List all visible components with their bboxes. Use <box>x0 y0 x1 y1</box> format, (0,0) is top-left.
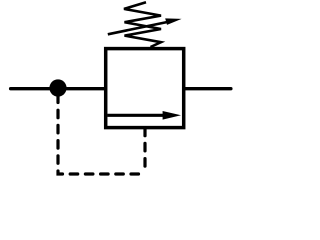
pilot line (dashed): riser up to valve bottom <box>143 128 146 168</box>
adjustment arrowhead <box>165 18 181 25</box>
valve body (regulator envelope) <box>106 49 184 128</box>
wire: main pipe right segment <box>184 87 231 90</box>
adjustment arrow shaft through spring <box>108 22 168 34</box>
pilot line (dashed): down from junction dot then right along bottom <box>58 95 139 174</box>
flow-path arrow inside valve body (shaft) <box>108 114 167 117</box>
flow-path arrowhead <box>163 111 181 120</box>
node: junction dot <box>49 79 66 96</box>
wire: main pipe left segment <box>11 87 105 90</box>
spring (zigzag) on valve top <box>124 2 161 47</box>
